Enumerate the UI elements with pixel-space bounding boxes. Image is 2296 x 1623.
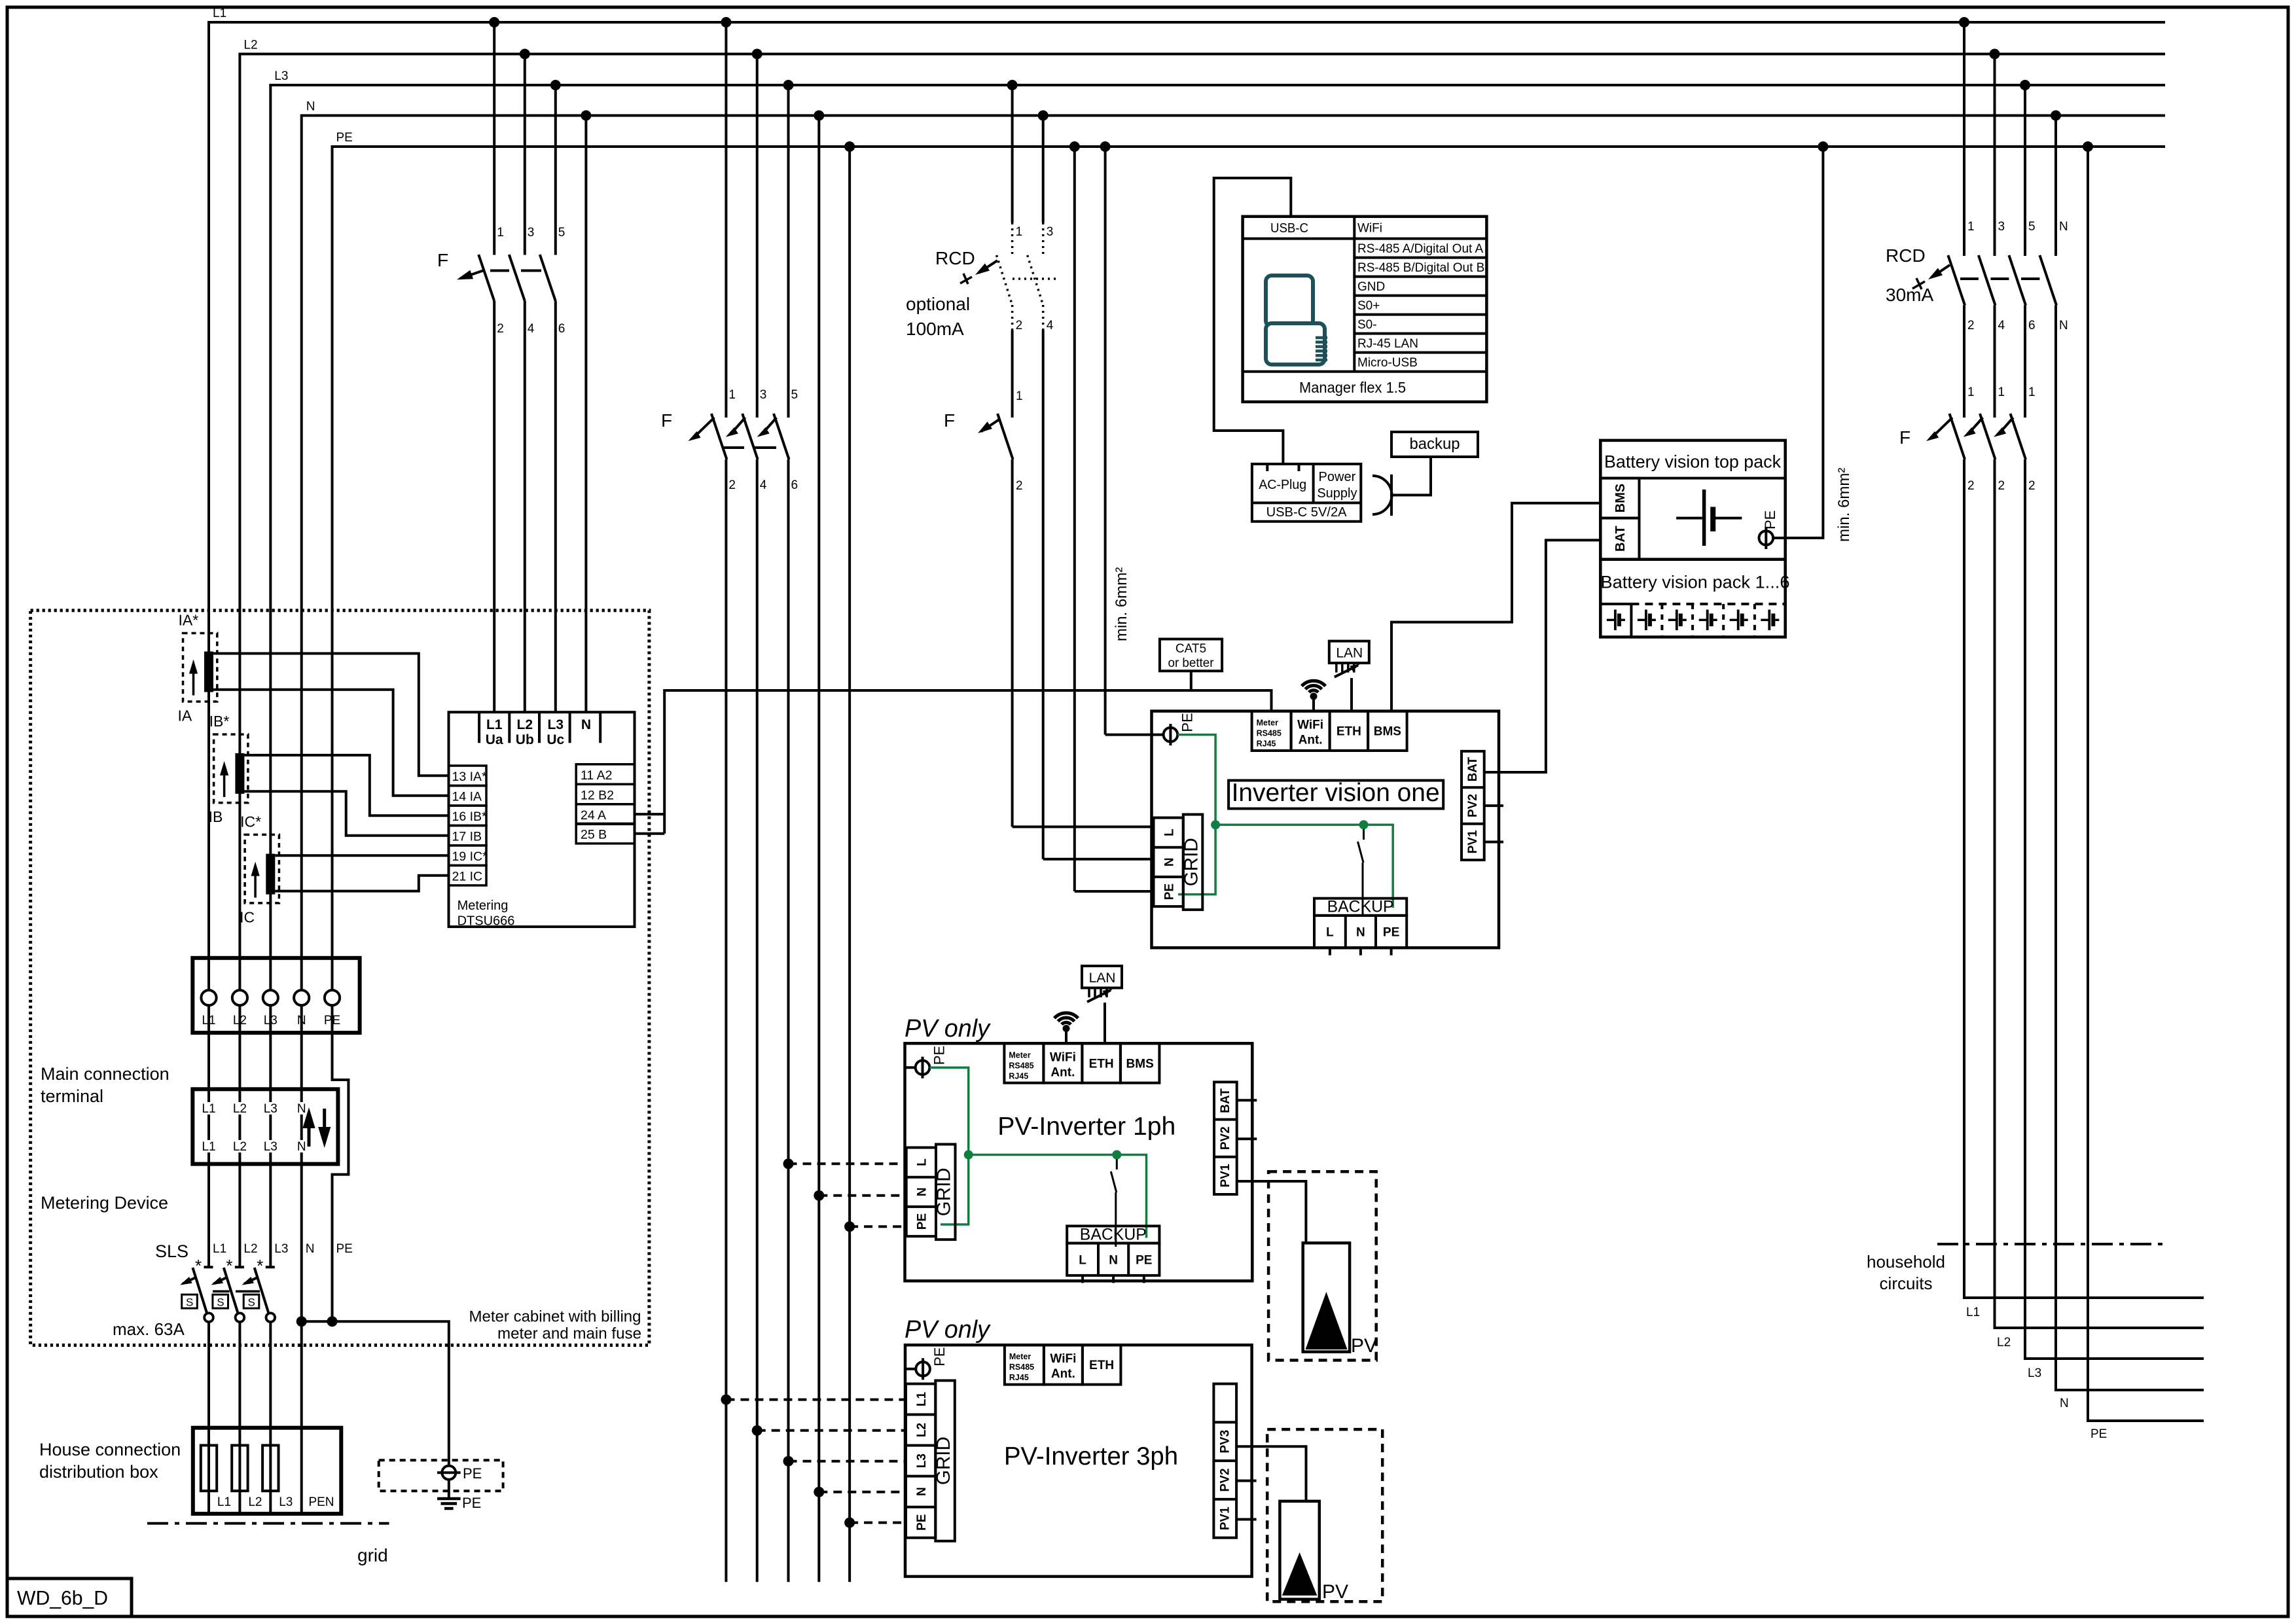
svg-text:4: 4 — [1998, 319, 2005, 332]
svg-text:PV3: PV3 — [1218, 1430, 1232, 1454]
svg-text:L1: L1 — [202, 1014, 215, 1027]
svg-text:L1: L1 — [1966, 1306, 1980, 1319]
svg-text:3: 3 — [1998, 220, 2005, 234]
svg-text:L2: L2 — [915, 1423, 929, 1437]
svg-text:PV1: PV1 — [1218, 1507, 1232, 1530]
svg-text:4: 4 — [528, 322, 535, 336]
svg-text:PV: PV — [1351, 1335, 1377, 1357]
svg-text:PE: PE — [324, 1014, 340, 1027]
svg-text:L2: L2 — [243, 39, 257, 52]
svg-text:IB*: IB* — [209, 713, 230, 730]
svg-text:WiFi: WiFi — [1050, 1352, 1076, 1366]
svg-text:*: * — [226, 1256, 232, 1275]
svg-text:or better: or better — [1168, 656, 1215, 670]
svg-text:13 IA*: 13 IA* — [452, 770, 488, 784]
svg-text:RS-485 A/Digital Out A: RS-485 A/Digital Out A — [1357, 242, 1484, 256]
svg-text:Main connection: Main connection — [41, 1064, 170, 1084]
svg-text:LAN: LAN — [1336, 646, 1363, 661]
svg-text:2: 2 — [1967, 479, 1975, 493]
svg-text:S0+: S0+ — [1357, 299, 1380, 313]
svg-text:BAT: BAT — [1613, 526, 1628, 552]
svg-text:N: N — [581, 717, 591, 732]
svg-text:1: 1 — [497, 226, 504, 240]
svg-text:PE: PE — [915, 1514, 929, 1531]
svg-text:PV: PV — [1322, 1581, 1348, 1603]
svg-text:2: 2 — [2028, 479, 2036, 493]
svg-text:F: F — [437, 250, 448, 270]
svg-text:RS-485 B/Digital Out B: RS-485 B/Digital Out B — [1357, 261, 1484, 275]
svg-text:Meter: Meter — [1257, 719, 1278, 728]
svg-text:DTSU666: DTSU666 — [457, 914, 515, 929]
svg-text:CAT5: CAT5 — [1175, 642, 1206, 656]
svg-text:IC*: IC* — [240, 813, 261, 830]
svg-text:4: 4 — [760, 478, 767, 492]
svg-text:L3: L3 — [548, 717, 564, 732]
svg-text:Ant.: Ant. — [1051, 1367, 1075, 1381]
svg-text:L: L — [1163, 829, 1177, 836]
svg-text:1: 1 — [728, 388, 736, 402]
svg-text:Battery vision pack 1...6: Battery vision pack 1...6 — [1601, 572, 1790, 592]
svg-text:2: 2 — [1967, 319, 1975, 332]
svg-text:circuits: circuits — [1880, 1274, 1933, 1293]
svg-text:RJ-45 LAN: RJ-45 LAN — [1357, 337, 1418, 351]
svg-text:Micro-USB: Micro-USB — [1357, 356, 1418, 370]
svg-text:GND: GND — [1357, 280, 1385, 294]
svg-text:25 B: 25 B — [581, 827, 607, 842]
svg-text:2: 2 — [1016, 479, 1023, 493]
svg-text:ETH: ETH — [1336, 725, 1361, 739]
svg-text:PE: PE — [916, 1213, 929, 1230]
svg-text:PE: PE — [1136, 1253, 1152, 1267]
svg-text:L1: L1 — [217, 1495, 231, 1509]
svg-text:L2: L2 — [233, 1014, 247, 1027]
svg-text:max. 63A: max. 63A — [113, 1319, 185, 1339]
svg-text:Manager flex 1.5: Manager flex 1.5 — [1299, 379, 1406, 396]
svg-text:1: 1 — [2028, 385, 2036, 399]
svg-text:ETH: ETH — [1089, 1057, 1114, 1071]
svg-text:11 A2: 11 A2 — [581, 768, 612, 783]
svg-text:2: 2 — [1016, 319, 1023, 332]
svg-text:PV2: PV2 — [1218, 1469, 1232, 1492]
svg-text:Supply: Supply — [1317, 486, 1357, 501]
svg-text:SLS: SLS — [155, 1241, 188, 1261]
svg-text:L3: L3 — [279, 1495, 293, 1509]
svg-text:BMS: BMS — [1374, 725, 1401, 739]
svg-text:6: 6 — [558, 322, 565, 336]
svg-text:Metering Device: Metering Device — [41, 1193, 168, 1213]
svg-text:L: L — [916, 1158, 929, 1166]
svg-text:RS485: RS485 — [1009, 1061, 1033, 1070]
svg-text:12 B2: 12 B2 — [581, 788, 614, 802]
svg-text:N: N — [1163, 857, 1177, 866]
svg-text:L3: L3 — [274, 1242, 288, 1256]
svg-text:household: household — [1867, 1252, 1945, 1272]
svg-text:L2: L2 — [233, 1140, 247, 1154]
svg-text:100mA: 100mA — [906, 319, 964, 339]
svg-text:PV2: PV2 — [1466, 794, 1480, 817]
svg-text:PE: PE — [931, 1347, 948, 1366]
svg-text:L1: L1 — [915, 1392, 929, 1407]
svg-text:IA*: IA* — [179, 612, 199, 629]
svg-text:PE: PE — [931, 1046, 948, 1065]
svg-text:IB: IB — [209, 808, 223, 825]
svg-text:RJ45: RJ45 — [1009, 1071, 1028, 1080]
svg-text:N: N — [306, 1242, 315, 1256]
svg-text:1: 1 — [1016, 389, 1023, 403]
svg-text:16 IB*: 16 IB* — [452, 810, 488, 824]
svg-text:N: N — [1356, 926, 1365, 940]
svg-text:PE: PE — [462, 1495, 481, 1511]
svg-text:N: N — [1109, 1253, 1118, 1267]
svg-text:PE: PE — [1383, 926, 1399, 940]
svg-text:S: S — [217, 1296, 224, 1309]
svg-text:RJ45: RJ45 — [1257, 740, 1276, 749]
svg-text:AC-Plug: AC-Plug — [1259, 478, 1306, 492]
svg-text:L: L — [1326, 926, 1334, 940]
svg-text:WD_6b_D: WD_6b_D — [17, 1586, 108, 1609]
svg-text:3: 3 — [760, 388, 767, 402]
svg-text:2: 2 — [728, 478, 736, 492]
svg-text:Ua: Ua — [486, 732, 503, 747]
svg-text:PV1: PV1 — [1466, 830, 1480, 853]
svg-text:F: F — [661, 410, 672, 431]
svg-text:IA: IA — [178, 707, 192, 724]
svg-text:GRID: GRID — [933, 1436, 954, 1485]
svg-text:PE: PE — [1179, 713, 1195, 732]
svg-text:L3: L3 — [264, 1102, 278, 1116]
svg-text:IC: IC — [240, 908, 255, 925]
svg-text:RJ45: RJ45 — [1009, 1373, 1029, 1382]
svg-text:L2: L2 — [1997, 1336, 2011, 1349]
svg-text:S: S — [248, 1296, 255, 1309]
svg-text:PE: PE — [463, 1465, 482, 1482]
svg-text:meter and main fuse: meter and main fuse — [497, 1325, 641, 1343]
svg-text:L: L — [1079, 1253, 1086, 1267]
svg-text:L1: L1 — [213, 7, 226, 20]
svg-text:PE: PE — [2090, 1427, 2107, 1441]
svg-text:N: N — [2060, 1397, 2069, 1410]
svg-text:BACKUP: BACKUP — [1327, 898, 1394, 916]
svg-text:*: * — [257, 1256, 263, 1275]
svg-text:1: 1 — [1016, 225, 1023, 239]
svg-text:L1: L1 — [486, 717, 503, 732]
svg-text:Ub: Ub — [516, 732, 534, 747]
svg-text:F: F — [1899, 427, 1910, 448]
svg-text:RCD: RCD — [1886, 245, 1926, 266]
svg-text:WiFi: WiFi — [1357, 222, 1382, 236]
svg-text:optional: optional — [906, 294, 970, 314]
svg-text:N: N — [2059, 319, 2068, 332]
svg-text:backup: backup — [1410, 435, 1460, 453]
svg-text:Metering: Metering — [457, 899, 509, 913]
svg-text:PEN: PEN — [308, 1495, 334, 1509]
svg-text:Inverter vision one: Inverter vision one — [1232, 779, 1440, 807]
svg-text:PE: PE — [336, 131, 353, 145]
svg-text:PV-Inverter 1ph: PV-Inverter 1ph — [997, 1113, 1175, 1141]
svg-text:17 IB: 17 IB — [452, 829, 482, 844]
svg-text:2: 2 — [1998, 479, 2005, 493]
svg-text:L3: L3 — [264, 1140, 278, 1154]
svg-text:N: N — [915, 1487, 929, 1496]
svg-text:PV1: PV1 — [1219, 1164, 1232, 1187]
svg-text:L1: L1 — [202, 1140, 215, 1154]
svg-text:House connection: House connection — [39, 1440, 181, 1459]
svg-text:L2: L2 — [248, 1495, 262, 1509]
svg-text:5: 5 — [791, 388, 798, 402]
svg-text:L2: L2 — [233, 1102, 247, 1116]
svg-text:24 A: 24 A — [581, 808, 606, 823]
svg-text:1: 1 — [1998, 385, 2005, 399]
svg-text:6: 6 — [2028, 319, 2036, 332]
svg-text:PE: PE — [336, 1242, 353, 1256]
svg-text:5: 5 — [558, 226, 565, 240]
svg-text:L3: L3 — [2028, 1366, 2041, 1380]
svg-text:PV2: PV2 — [1219, 1126, 1232, 1150]
svg-text:RCD: RCD — [935, 248, 975, 268]
svg-text:BMS: BMS — [1126, 1057, 1154, 1071]
svg-text:N: N — [297, 1014, 306, 1027]
svg-text:GRID: GRID — [1181, 838, 1202, 886]
svg-text:1: 1 — [1967, 220, 1975, 234]
svg-text:Power: Power — [1319, 470, 1356, 484]
svg-text:USB-C 5V/2A: USB-C 5V/2A — [1266, 505, 1348, 520]
svg-text:Ant.: Ant. — [1299, 734, 1323, 747]
svg-text:21 IC: 21 IC — [452, 869, 483, 883]
svg-text:19 IC*: 19 IC* — [452, 849, 488, 864]
svg-text:L2: L2 — [243, 1242, 257, 1256]
svg-text:ETH: ETH — [1089, 1359, 1114, 1372]
svg-text:N: N — [297, 1140, 306, 1154]
svg-text:Meter: Meter — [1009, 1050, 1030, 1060]
svg-text:L2: L2 — [517, 717, 533, 732]
svg-text:BACKUP: BACKUP — [1080, 1225, 1147, 1243]
svg-text:L3: L3 — [274, 69, 288, 83]
svg-text:WiFi: WiFi — [1050, 1050, 1076, 1064]
svg-text:USB-C: USB-C — [1270, 221, 1308, 236]
svg-text:4: 4 — [1047, 319, 1054, 332]
svg-text:BMS: BMS — [1613, 484, 1628, 512]
svg-text:distribution box: distribution box — [39, 1462, 158, 1482]
svg-text:GRID: GRID — [934, 1168, 955, 1216]
svg-text:14 IA: 14 IA — [452, 790, 482, 804]
svg-text:S: S — [186, 1296, 193, 1309]
svg-text:PV-Inverter 3ph: PV-Inverter 3ph — [1004, 1442, 1178, 1471]
svg-text:PE: PE — [1762, 510, 1778, 529]
svg-text:Battery vision top pack: Battery vision top pack — [1604, 452, 1781, 472]
svg-text:terminal: terminal — [41, 1086, 103, 1106]
svg-text:PE: PE — [1163, 883, 1177, 900]
svg-text:2: 2 — [497, 322, 504, 336]
svg-text:L1: L1 — [202, 1102, 215, 1116]
svg-text:3: 3 — [528, 226, 535, 240]
svg-text:Meter cabinet with billing: Meter cabinet with billing — [469, 1308, 641, 1326]
svg-text:6: 6 — [791, 478, 798, 492]
svg-text:grid: grid — [357, 1545, 388, 1565]
svg-text:5: 5 — [2028, 220, 2036, 234]
svg-text:Uc: Uc — [547, 732, 564, 747]
svg-text:N: N — [916, 1187, 929, 1196]
svg-text:N: N — [2059, 220, 2068, 234]
svg-text:PV only: PV only — [905, 1316, 991, 1344]
svg-text:BAT: BAT — [1219, 1088, 1232, 1113]
svg-text:BAT: BAT — [1466, 757, 1480, 781]
svg-text:N: N — [297, 1102, 306, 1116]
svg-text:F: F — [944, 410, 955, 431]
svg-text:min. 6mm²: min. 6mm² — [1835, 468, 1853, 542]
svg-text:min. 6mm²: min. 6mm² — [1113, 567, 1130, 641]
svg-text:*: * — [195, 1256, 202, 1275]
svg-text:Meter: Meter — [1009, 1352, 1031, 1361]
svg-text:WiFi: WiFi — [1297, 719, 1323, 732]
svg-text:RS485: RS485 — [1009, 1363, 1034, 1372]
svg-text:PV only: PV only — [905, 1015, 991, 1043]
svg-text:RS485: RS485 — [1257, 729, 1282, 738]
svg-text:L1: L1 — [213, 1242, 226, 1256]
svg-text:S0-: S0- — [1357, 318, 1377, 332]
svg-text:L3: L3 — [264, 1014, 278, 1027]
svg-text:1: 1 — [1967, 385, 1975, 399]
svg-text:LAN: LAN — [1089, 971, 1116, 986]
svg-text:N: N — [306, 100, 315, 114]
svg-text:Ant.: Ant. — [1050, 1065, 1075, 1079]
svg-text:30mA: 30mA — [1886, 285, 1933, 305]
svg-text:L3: L3 — [915, 1454, 929, 1468]
svg-text:3: 3 — [1047, 225, 1054, 239]
